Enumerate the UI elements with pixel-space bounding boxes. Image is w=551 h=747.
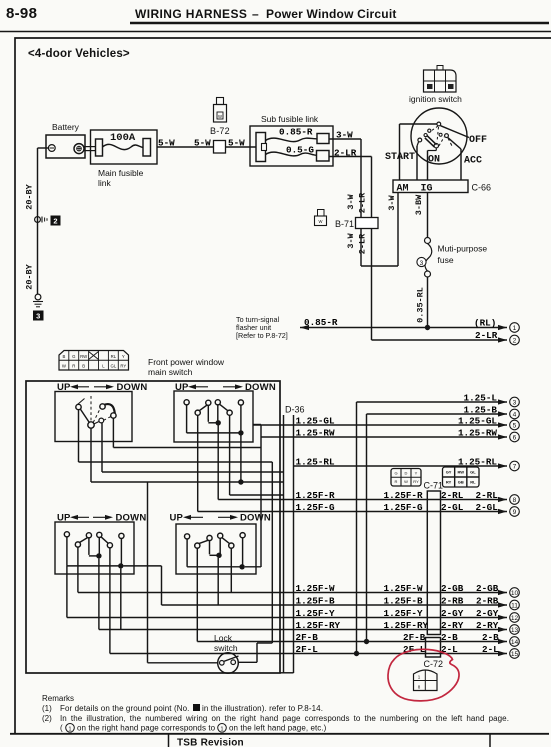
svg-text:11: 11 — [511, 602, 518, 609]
svg-text:3-W: 3-W — [387, 194, 397, 210]
svg-text:ON: ON — [428, 155, 440, 166]
svg-text:G: G — [394, 470, 397, 475]
svg-text:1.25F-B: 1.25F-B — [296, 595, 335, 606]
svg-text:1.25F-B: 1.25F-B — [384, 595, 423, 606]
svg-text:W: W — [62, 364, 67, 369]
svg-text:Remarks: Remarks — [42, 694, 74, 703]
svg-text:1.25-RL: 1.25-RL — [458, 456, 497, 467]
svg-text:2: 2 — [513, 337, 517, 344]
svg-text:3-BW: 3-BW — [414, 194, 424, 215]
svg-text:B-71: B-71 — [335, 219, 354, 229]
svg-text:2-RL: 2-RL — [476, 490, 499, 501]
svg-text:2-GY: 2-GY — [441, 608, 464, 619]
svg-text:1.25-RW: 1.25-RW — [296, 427, 335, 438]
svg-text:1.25-B: 1.25-B — [464, 404, 498, 415]
svg-text:1.25-RW: 1.25-RW — [458, 427, 497, 438]
svg-text:0.35-RL: 0.35-RL — [415, 287, 425, 323]
svg-text:In the illustration, the numbe: In the illustration, the numbered wiring… — [60, 714, 509, 723]
svg-text:on the right hand page corresp: on the right hand page corresponds to — [77, 724, 216, 733]
svg-text:1.25F-Y: 1.25F-Y — [296, 608, 335, 619]
svg-text:D: D — [405, 470, 408, 475]
svg-text:2-GL: 2-GL — [476, 502, 499, 513]
svg-text:L: L — [102, 364, 105, 369]
svg-text:6: 6 — [513, 434, 517, 441]
svg-text:8: 8 — [513, 497, 517, 504]
svg-text:link: link — [98, 178, 112, 188]
svg-text:5-W: 5-W — [194, 138, 211, 149]
svg-text:1.25F-W: 1.25F-W — [296, 583, 335, 594]
svg-text:1.25-GL: 1.25-GL — [296, 415, 335, 426]
svg-text:2-RY: 2-RY — [476, 620, 499, 631]
svg-text:1.25F-R: 1.25F-R — [384, 490, 423, 501]
svg-text:5-W: 5-W — [228, 138, 245, 149]
svg-text:8-98: 8-98 — [6, 5, 37, 22]
svg-text:2-B: 2-B — [441, 632, 458, 643]
svg-text:GB: GB — [458, 480, 464, 485]
svg-text:1: 1 — [418, 674, 421, 679]
svg-text:14: 14 — [511, 639, 519, 646]
svg-text:RY: RY — [120, 364, 126, 369]
svg-text:12: 12 — [511, 615, 519, 622]
svg-text:RY: RY — [413, 479, 419, 484]
svg-text:0.85-R: 0.85-R — [304, 317, 338, 328]
svg-text:15: 15 — [511, 651, 519, 658]
svg-text:1.25F-G: 1.25F-G — [296, 502, 335, 513]
svg-text:RL: RL — [111, 354, 117, 359]
svg-text:R: R — [395, 479, 398, 484]
svg-text:Sub fusible link: Sub fusible link — [261, 114, 319, 124]
svg-text:C-72: C-72 — [424, 659, 444, 669]
svg-text:9: 9 — [513, 509, 517, 516]
svg-text:Lock: Lock — [214, 633, 233, 643]
svg-text:DOWN: DOWN — [240, 513, 271, 524]
svg-text:2: 2 — [53, 217, 57, 226]
svg-text:–: – — [252, 7, 259, 21]
svg-text:W: W — [218, 114, 222, 119]
svg-text:START: START — [385, 152, 415, 163]
svg-text:2-GB: 2-GB — [476, 583, 499, 594]
svg-text:0.5-G: 0.5-G — [286, 145, 314, 156]
svg-text:RY: RY — [446, 480, 452, 485]
svg-text:7: 7 — [513, 463, 517, 470]
svg-text:2F-B: 2F-B — [403, 632, 426, 643]
svg-text:<4-door Vehicles>: <4-door Vehicles> — [28, 48, 130, 60]
svg-text:GY: GY — [446, 470, 452, 475]
svg-text:Muti-purpose: Muti-purpose — [438, 244, 488, 254]
svg-text:2-LR: 2-LR — [358, 192, 368, 213]
svg-text:switch: switch — [214, 643, 238, 653]
svg-text:2-RB: 2-RB — [441, 595, 464, 606]
svg-text:2F-L: 2F-L — [296, 644, 319, 655]
svg-text:G: G — [72, 354, 76, 359]
svg-text:2-GL: 2-GL — [441, 502, 464, 513]
svg-text:(1): (1) — [42, 704, 52, 713]
svg-text:RW: RW — [80, 354, 88, 359]
svg-text:Battery: Battery — [52, 122, 80, 132]
svg-text:2-RL: 2-RL — [441, 490, 464, 501]
svg-text:ignition switch: ignition switch — [409, 94, 462, 104]
svg-text:Y: Y — [122, 354, 125, 359]
svg-text:(RL): (RL) — [474, 318, 496, 329]
svg-text:UP: UP — [170, 513, 184, 524]
svg-text:on the left hand page, etc.): on the left hand page, etc.) — [229, 724, 327, 733]
svg-text:RL: RL — [470, 480, 476, 485]
svg-text:2F-B: 2F-B — [296, 632, 319, 643]
svg-text:2-LR: 2-LR — [475, 330, 498, 341]
svg-text:20-BY: 20-BY — [25, 263, 35, 289]
svg-text:fuse: fuse — [438, 255, 454, 265]
svg-text:Main fusible: Main fusible — [98, 168, 144, 178]
svg-text:(: ( — [60, 724, 63, 733]
svg-text:3: 3 — [420, 260, 424, 267]
svg-text:For details on the ground poin: For details on the ground point (No. — [60, 704, 189, 713]
svg-text:2-RY: 2-RY — [441, 620, 464, 631]
svg-text:2-GB: 2-GB — [441, 583, 464, 594]
svg-text:C-66: C-66 — [472, 183, 492, 193]
svg-text:B-72: B-72 — [210, 126, 230, 136]
svg-text:3-W: 3-W — [346, 232, 356, 248]
svg-text:1.25F-G: 1.25F-G — [384, 502, 423, 513]
svg-text:W: W — [404, 479, 408, 484]
svg-text:1.25-RL: 1.25-RL — [296, 456, 335, 467]
svg-text:R: R — [72, 364, 75, 369]
svg-text:GL: GL — [111, 364, 117, 369]
svg-text:Power Window Circuit: Power Window Circuit — [266, 7, 397, 21]
svg-text:2-L: 2-L — [482, 644, 499, 655]
svg-text:C-71: C-71 — [424, 481, 444, 491]
svg-text:1.25F-RY: 1.25F-RY — [384, 620, 429, 631]
svg-text:1: 1 — [68, 726, 71, 732]
svg-text:8: 8 — [418, 684, 421, 689]
svg-text:W: W — [319, 219, 323, 224]
svg-text:OFF: OFF — [469, 135, 487, 146]
svg-text:10: 10 — [511, 590, 519, 597]
svg-text:4: 4 — [513, 411, 517, 418]
svg-text:IG: IG — [421, 184, 433, 195]
svg-text:Y: Y — [415, 470, 418, 475]
svg-text:RW: RW — [457, 470, 464, 475]
svg-text:3: 3 — [36, 312, 40, 321]
svg-text:2-GY: 2-GY — [476, 608, 499, 619]
svg-text:TSB Revision: TSB Revision — [177, 738, 244, 747]
svg-text:in the illustration). refer to: in the illustration). refer to P.8-14. — [202, 704, 323, 713]
svg-text:WIRING HARNESS: WIRING HARNESS — [135, 7, 247, 21]
svg-text:2-LR: 2-LR — [358, 233, 368, 254]
svg-text:1.25F-Y: 1.25F-Y — [384, 608, 423, 619]
svg-text:AM: AM — [397, 184, 409, 195]
svg-text:B: B — [62, 354, 65, 359]
svg-text:100A: 100A — [110, 132, 136, 144]
svg-text:5-W: 5-W — [158, 138, 175, 149]
svg-text:[Refer to P.8-72]: [Refer to P.8-72] — [236, 331, 288, 340]
svg-text:1.25F-R: 1.25F-R — [296, 490, 335, 501]
svg-text:ACC: ACC — [464, 156, 482, 167]
svg-text:1.25-GL: 1.25-GL — [458, 415, 497, 426]
svg-text:0.85-R: 0.85-R — [279, 127, 313, 138]
svg-text:5: 5 — [513, 422, 517, 429]
svg-text:2-RB: 2-RB — [476, 595, 499, 606]
svg-text:D-36: D-36 — [285, 405, 305, 415]
svg-text:Front power window: Front power window — [148, 357, 225, 367]
svg-text:GL: GL — [470, 470, 476, 475]
svg-text:main switch: main switch — [148, 367, 193, 377]
svg-text:13: 13 — [511, 627, 519, 634]
svg-text:1: 1 — [513, 325, 517, 332]
svg-text:3: 3 — [513, 399, 517, 406]
svg-text:(2): (2) — [42, 714, 52, 723]
svg-text:1.25-L: 1.25-L — [464, 392, 498, 403]
svg-text:2-B: 2-B — [482, 632, 499, 643]
svg-text:3-W: 3-W — [346, 193, 356, 209]
svg-text:1.25F-W: 1.25F-W — [384, 583, 423, 594]
svg-text:20-BY: 20-BY — [25, 183, 35, 209]
svg-text:1: 1 — [220, 726, 223, 732]
svg-text:B: B — [82, 364, 85, 369]
svg-text:1.25F-RY: 1.25F-RY — [296, 620, 341, 631]
